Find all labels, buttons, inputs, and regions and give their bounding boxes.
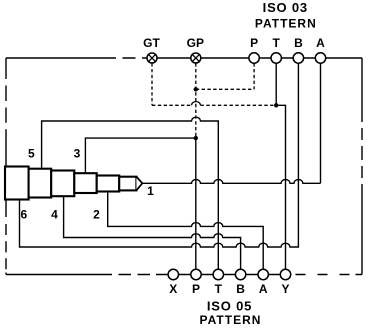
gauge line GP vertical (195, 63, 197, 138)
port B bottom (235, 269, 245, 279)
port GT plugged circle (147, 53, 157, 63)
svg-text:T: T (215, 282, 223, 296)
svg-text:PATTERN: PATTERN (200, 313, 262, 327)
svg-text:T: T (273, 36, 281, 50)
gauge line GP to top P connector (196, 88, 254, 90)
port P top (249, 53, 259, 63)
gauge line GT horizontal to T node (152, 104, 276, 106)
svg-text:2: 2 (93, 208, 100, 222)
wire port5 to bottom T (42, 117, 219, 269)
svg-text:4: 4 (51, 208, 58, 222)
svg-text:P: P (250, 36, 258, 50)
hop on GT gauge line over GP line (192, 102, 201, 106)
wire GP node to bottom P (195, 138, 197, 269)
port A bottom (258, 269, 268, 279)
svg-text:X: X (169, 282, 177, 296)
envelope top edge (6, 57, 362, 59)
cavity step C (51, 171, 74, 197)
junction dot GT-T node (274, 103, 278, 107)
envelope bottom edge (6, 274, 291, 276)
svg-text:5: 5 (28, 147, 35, 161)
svg-text:A: A (259, 282, 268, 296)
svg-text:3: 3 (74, 147, 81, 161)
port Y bottom (280, 269, 290, 279)
envelope left edge (5, 58, 7, 275)
stepped cavity body (5, 167, 142, 200)
port GP plugged circle (191, 53, 201, 63)
envelope right edge (361, 58, 363, 275)
junction dot GP port3 node (194, 136, 198, 140)
svg-text:PATTERN: PATTERN (255, 16, 317, 30)
envelope bottom right dashed (296, 274, 363, 276)
svg-text:P: P (192, 282, 200, 296)
port X bottom (168, 269, 178, 279)
port B top (293, 53, 303, 63)
svg-text:ISO 05: ISO 05 (207, 299, 252, 314)
svg-text:B: B (236, 282, 245, 296)
cavity step A (5, 167, 29, 200)
svg-text:ISO 03: ISO 03 (263, 0, 308, 15)
cavity step F (119, 177, 136, 191)
wire port1 nose to top A (142, 180, 320, 184)
cavity nose tip (136, 177, 142, 191)
gauge line top P vertical (253, 63, 255, 89)
junction dot GP-P gauge (194, 87, 198, 91)
port T top (271, 53, 281, 63)
wire port3 horizontal (85, 138, 195, 173)
svg-text:B: B (294, 36, 303, 50)
svg-text:6: 6 (20, 208, 27, 222)
cavity step E (97, 176, 120, 192)
port P bottom (191, 269, 201, 279)
svg-text:GP: GP (187, 36, 204, 50)
port A top (315, 53, 325, 63)
svg-text:A: A (316, 36, 325, 50)
svg-text:Y: Y (281, 282, 289, 296)
cavity step D (74, 173, 96, 193)
cavity step B (29, 169, 52, 198)
svg-text:1: 1 (147, 184, 154, 198)
wire port6 to top B (20, 63, 299, 247)
wire port2 to bottom A (108, 192, 264, 270)
port T bottom (213, 269, 223, 279)
wire port4 to bottom B (64, 196, 241, 269)
wire top T vertical and jog to bottom Y (276, 63, 285, 269)
gauge line GT vertical (151, 63, 153, 105)
svg-text:GT: GT (143, 36, 160, 50)
wire top A vertical (320, 63, 322, 183)
